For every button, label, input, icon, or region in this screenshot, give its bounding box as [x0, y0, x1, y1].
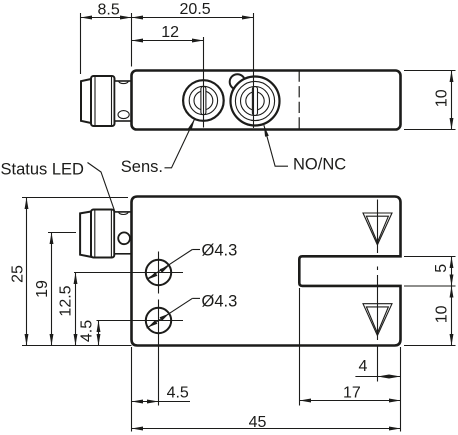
svg-text:17: 17 [343, 384, 361, 401]
svg-text:Ø4.3: Ø4.3 [202, 242, 238, 260]
svg-text:4.5: 4.5 [167, 384, 189, 401]
svg-text:20.5: 20.5 [180, 1, 211, 18]
svg-text:8.5: 8.5 [97, 1, 119, 18]
svg-text:25: 25 [10, 265, 27, 283]
svg-text:12: 12 [161, 24, 179, 41]
svg-text:NO/NC: NO/NC [293, 156, 346, 174]
svg-text:Sens.: Sens. [121, 158, 163, 176]
svg-text:10: 10 [433, 305, 450, 323]
svg-text:4: 4 [359, 358, 368, 375]
svg-text:5: 5 [433, 264, 450, 273]
svg-text:Status LED: Status LED [1, 160, 85, 178]
svg-text:4.5: 4.5 [79, 320, 96, 342]
svg-text:10: 10 [433, 89, 450, 107]
svg-text:12.5: 12.5 [57, 285, 74, 316]
svg-text:Ø4.3: Ø4.3 [202, 293, 238, 311]
svg-text:19: 19 [34, 280, 51, 298]
svg-text:45: 45 [249, 414, 267, 431]
